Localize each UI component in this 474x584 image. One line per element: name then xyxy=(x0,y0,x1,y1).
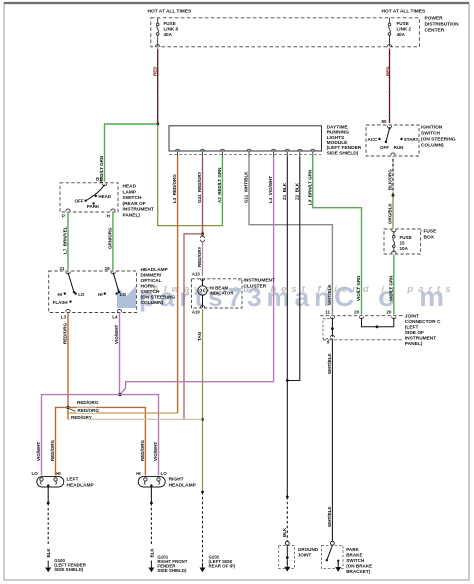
svg-text:TAN: TAN xyxy=(197,332,202,341)
svg-text:(REAR OF: (REAR OF xyxy=(123,201,146,207)
svg-text:A3 RED/LT GRN: A3 RED/LT GRN xyxy=(217,168,222,203)
module pin 3 xyxy=(220,149,224,157)
module pin 2 xyxy=(200,149,204,157)
svg-text:10A: 10A xyxy=(400,246,409,251)
watermark site name xyxy=(139,281,446,312)
wire RED/ORG dimmer L3 down xyxy=(63,313,68,419)
hi-beam indicator label xyxy=(210,285,235,295)
park brake switch label xyxy=(346,547,372,574)
wire BLK/ORG ignition to splice xyxy=(388,157,393,196)
wire WHT/BLK joint connector pin 9 to park brake switch xyxy=(327,339,332,541)
svg-text:BRAKE: BRAKE xyxy=(346,553,362,558)
svg-text:L9 BRN/LT GRN: L9 BRN/LT GRN xyxy=(307,170,312,205)
wire Z1 BLK module to ground joint xyxy=(282,157,287,497)
cluster pin A13 xyxy=(192,272,205,281)
module pin 5 xyxy=(271,149,275,157)
svg-text:COLUMN): COLUMN) xyxy=(421,143,444,149)
splice node on RED feed xyxy=(156,123,159,126)
wire L9 BRN/LT GRN module to joint connector xyxy=(307,157,361,315)
svg-text:15: 15 xyxy=(400,241,406,246)
dimmer switch label xyxy=(141,267,176,306)
fuse link 8 value label xyxy=(164,21,179,37)
ignition switch label xyxy=(421,125,456,149)
node HOT AT ALL TIMES left xyxy=(148,9,193,15)
svg-text:H: H xyxy=(107,213,110,218)
svg-text:HEAD: HEAD xyxy=(98,194,112,199)
fuse link 2 xyxy=(387,18,391,47)
headlamp switch pin P xyxy=(62,209,70,218)
svg-text:ACC: ACC xyxy=(368,137,378,142)
module pin 4 xyxy=(247,149,251,157)
wire VIO/LT GRN fuse 15 to joint connector xyxy=(388,255,393,315)
svg-text:HORN: HORN xyxy=(141,284,156,290)
ground joint internals xyxy=(284,545,290,571)
svg-text:WHT/BLK: WHT/BLK xyxy=(327,353,332,374)
svg-text:POWER: POWER xyxy=(425,16,444,22)
svg-text:LO: LO xyxy=(32,471,39,476)
junction RED/ORG at dimmer L3 xyxy=(66,406,69,409)
svg-text:BRACKET): BRACKET) xyxy=(346,569,370,574)
svg-text:LAMP: LAMP xyxy=(123,189,137,195)
svg-text:JOINT: JOINT xyxy=(298,553,312,558)
svg-text:L4: L4 xyxy=(112,315,118,320)
svg-text:L3 RED/ORG: L3 RED/ORG xyxy=(172,174,177,203)
svg-text:(LEFT: (LEFT xyxy=(405,325,419,331)
svg-text:80: 80 xyxy=(381,119,387,124)
svg-text:SWITCH: SWITCH xyxy=(421,131,440,137)
ground joint box xyxy=(279,545,295,568)
joint connector pin 20 right xyxy=(386,310,396,319)
instrument cluster label xyxy=(238,278,275,290)
svg-text:VIO/WHT: VIO/WHT xyxy=(153,442,158,461)
wire RED/GRY branch to lower run xyxy=(184,234,203,420)
svg-text:CONNECTOR C: CONNECTOR C xyxy=(405,319,441,325)
svg-text:40A: 40A xyxy=(164,32,173,37)
svg-text:HEADLAMP: HEADLAMP xyxy=(141,267,169,273)
svg-text:HEADLAMP: HEADLAMP xyxy=(67,482,95,488)
svg-text:GRN/ORG: GRN/ORG xyxy=(108,227,113,249)
svg-text:RUN: RUN xyxy=(394,145,404,150)
svg-text:OFF: OFF xyxy=(380,145,389,150)
svg-text:LO: LO xyxy=(78,292,85,297)
wire RED/ORG run O2 module L3 link xyxy=(68,412,178,414)
wire RED/LT GRN splice down to module pin A3 xyxy=(158,125,222,226)
dimmer right pole lever and contacts xyxy=(98,273,126,297)
svg-text:SWITCH: SWITCH xyxy=(346,558,365,563)
svg-text:BLK/ORG: BLK/ORG xyxy=(388,169,393,190)
wire Z2 BLK module joining Z1 xyxy=(287,157,300,381)
svg-text:INSTRUMENT: INSTRUMENT xyxy=(244,278,276,284)
svg-text:SWITCH: SWITCH xyxy=(141,289,160,295)
junction Z1-Z2 xyxy=(286,379,289,382)
ignition switch contacts and lever xyxy=(368,127,419,150)
dimmer pin L3 xyxy=(61,310,70,320)
wire VIO/WHT run V1 module L4 to dimmer leg xyxy=(120,382,274,395)
svg-text:HI: HI xyxy=(98,292,103,297)
headlamp dimmer switch box xyxy=(49,271,137,313)
svg-text:LO: LO xyxy=(120,292,127,297)
ground G101 label xyxy=(157,555,187,574)
svg-text:LEFT: LEFT xyxy=(67,476,79,482)
run labels RED/ORG RED/ORG RED/GRY xyxy=(70,399,100,420)
DRL module label xyxy=(327,124,362,156)
power distribution center label xyxy=(425,16,460,34)
svg-text:20: 20 xyxy=(386,310,392,315)
svg-text:BLK: BLK xyxy=(46,548,51,558)
left headlamp lamp body xyxy=(37,477,64,487)
svg-text:LINK 2: LINK 2 xyxy=(397,27,412,32)
wire TAN cluster A10 down to ground xyxy=(197,309,205,572)
wire RED/GRY run C xyxy=(68,418,203,420)
svg-text:L7 BRN/YEL: L7 BRN/YEL xyxy=(63,226,68,254)
svg-text:LIGHTS: LIGHTS xyxy=(327,135,345,141)
joint connector pin 20 left xyxy=(354,310,364,319)
svg-text:RED/ORG: RED/ORG xyxy=(77,400,99,405)
svg-text:FUSE: FUSE xyxy=(400,235,412,240)
watermark logo mark xyxy=(117,286,136,308)
svg-text:JOINT: JOINT xyxy=(405,314,419,320)
left headlamp label xyxy=(67,476,95,488)
hi-beam indicator lamp xyxy=(198,279,207,308)
svg-text:HOT AT ALL TIMES: HOT AT ALL TIMES xyxy=(382,9,427,15)
park brake switch box xyxy=(322,545,344,568)
wire ORG/BLK splice to fuse 15 xyxy=(388,196,393,229)
right headlamp label xyxy=(169,476,197,488)
svg-text:A10: A10 xyxy=(192,309,200,314)
svg-text:IGNITION: IGNITION xyxy=(421,125,443,131)
headlamp switch pin B1 xyxy=(96,177,107,186)
node HOT AT ALL TIMES right xyxy=(382,9,427,15)
svg-text:FUSE: FUSE xyxy=(397,21,409,26)
svg-text:ORG/BLK: ORG/BLK xyxy=(388,203,393,224)
joint connector internal bus xyxy=(362,318,394,328)
dimmer left pole lever and contacts xyxy=(53,273,85,305)
svg-text:RED/ORG: RED/ORG xyxy=(50,439,55,461)
svg-text:Z1 BLK: Z1 BLK xyxy=(282,182,287,200)
svg-text:L3: L3 xyxy=(61,315,67,320)
svg-text:RED: RED xyxy=(385,66,390,76)
right headlamp pin labels xyxy=(136,471,167,476)
svg-text:RED/GRY: RED/GRY xyxy=(197,247,202,267)
right headlamp lamp body xyxy=(138,477,165,487)
svg-text:DIMMER/: DIMMER/ xyxy=(141,273,162,279)
wire RED/LT GRN splice to headlamp switch B1 xyxy=(99,124,158,183)
svg-text:INDICATOR: INDICATOR xyxy=(210,291,235,296)
power distribution center box xyxy=(151,18,420,47)
svg-text:BLK: BLK xyxy=(282,527,287,537)
svg-text:WHT/BLK: WHT/BLK xyxy=(327,506,332,527)
joint connector pin 9 row dashed line xyxy=(323,339,403,341)
fuse link 2 value label xyxy=(397,21,412,37)
ignition switch output pin xyxy=(391,153,395,155)
instrument cluster box xyxy=(192,279,243,308)
svg-text:SIDE OF: SIDE OF xyxy=(405,330,424,336)
dimmer pin L4 xyxy=(112,310,121,320)
wire RED from fuse link 2 to ignition switch pin 80 xyxy=(385,49,390,123)
svg-text:SIDE SHIELD): SIDE SHIELD) xyxy=(54,567,84,572)
fuse 15 value label xyxy=(400,235,412,251)
svg-text:40A: 40A xyxy=(397,32,406,37)
ground joint pin xyxy=(285,541,289,545)
svg-text:G11 WHT/BLK: G11 WHT/BLK xyxy=(244,171,249,203)
svg-text:PARK: PARK xyxy=(87,204,100,209)
wire L3 RED/ORG module to lower run xyxy=(172,157,177,413)
svg-text:RED/ORG: RED/ORG xyxy=(63,322,68,344)
dimmer pin 19 xyxy=(105,266,116,274)
svg-text:SWITCH: SWITCH xyxy=(123,195,142,201)
svg-text:G24 RED/GRY: G24 RED/GRY xyxy=(197,172,202,203)
fuse box label xyxy=(421,229,437,241)
svg-text:(LEFT FENDER: (LEFT FENDER xyxy=(327,145,362,151)
svg-text:PANEL): PANEL) xyxy=(123,213,141,219)
svg-text:PANEL): PANEL) xyxy=(405,341,423,347)
svg-text:HI: HI xyxy=(136,471,141,476)
svg-text:HEAD: HEAD xyxy=(123,184,137,190)
svg-text:P: P xyxy=(62,213,65,218)
left headlamp ground wire BLK xyxy=(45,486,51,572)
inline connector on indicator feed xyxy=(201,234,205,242)
joint connector C label xyxy=(405,314,441,348)
watermark script slogan xyxy=(151,284,452,295)
svg-text:VIO/LT GRN: VIO/LT GRN xyxy=(356,276,361,301)
svg-text:REAR OF IP): REAR OF IP) xyxy=(209,564,236,569)
svg-text:INSTRUMENT: INSTRUMENT xyxy=(123,207,155,213)
joint connector pin 11 to pin 9 segment xyxy=(323,318,335,345)
svg-text:B1: B1 xyxy=(96,177,102,182)
wire VIO/WHT run V2 to headlamps xyxy=(36,395,158,476)
svg-text:21: 21 xyxy=(59,266,65,271)
svg-text:BOX: BOX xyxy=(424,235,435,241)
joint connector pin 11 xyxy=(325,310,334,319)
ground joint label xyxy=(298,547,319,558)
wire Z1 BLK dashed segment to ground joint xyxy=(282,496,289,542)
svg-text:OPTICAL: OPTICAL xyxy=(141,278,162,284)
svg-text:RED/ORG: RED/ORG xyxy=(140,439,145,461)
fuse 15 xyxy=(392,230,396,253)
wire BRN/YEL headlamp switch P to dimmer pin 21 xyxy=(63,213,68,270)
park brake switch pin xyxy=(331,541,335,545)
svg-text:Z2 BLK: Z2 BLK xyxy=(294,182,299,200)
svg-text:FUSE: FUSE xyxy=(164,21,176,26)
left headlamp pin labels xyxy=(32,471,61,476)
svg-text:RUNNING: RUNNING xyxy=(327,130,350,136)
fuse box (dashed) xyxy=(384,229,421,254)
fuse link 8 xyxy=(156,18,160,47)
junction VIO/WHT at dimmer leg xyxy=(118,393,121,396)
svg-text:FUSE: FUSE xyxy=(424,229,438,235)
joint connector C dashed line xyxy=(320,315,404,317)
splice on ignition feed xyxy=(392,194,395,197)
svg-text:(ON STEERING: (ON STEERING xyxy=(421,137,456,143)
svg-text:START: START xyxy=(404,137,419,142)
wire GRN/ORG headlamp switch H to dimmer pin 19 xyxy=(108,213,113,270)
cluster pin A10 xyxy=(192,306,205,315)
svg-text:HI: HI xyxy=(56,471,61,476)
ignition switch pin 80 xyxy=(381,119,391,128)
svg-text:HOT AT ALL TIMES: HOT AT ALL TIMES xyxy=(148,9,193,15)
svg-text:(ON STEERING: (ON STEERING xyxy=(141,295,176,301)
svg-text:RED: RED xyxy=(152,66,157,76)
module pin 8 xyxy=(311,149,315,157)
svg-text:SIDE SHIELD): SIDE SHIELD) xyxy=(157,568,187,573)
svg-text:19: 19 xyxy=(105,266,111,271)
splice on hi-beam indicator feed xyxy=(201,232,204,235)
svg-text:COLUMN): COLUMN) xyxy=(141,300,164,306)
module pin 7 xyxy=(298,149,302,157)
svg-text:MODULE: MODULE xyxy=(327,140,349,146)
svg-text:BLK: BLK xyxy=(149,548,154,558)
svg-text:VIO/WHT: VIO/WHT xyxy=(114,325,119,344)
svg-text:20: 20 xyxy=(354,310,360,315)
headlamp switch contacts and lever xyxy=(75,185,112,210)
wire RED/GRY connector to cluster pin A13 xyxy=(197,241,202,277)
svg-text:OFF: OFF xyxy=(75,198,84,203)
svg-text:LINK 8: LINK 8 xyxy=(164,27,179,32)
wire L4 VIO/WHT module down xyxy=(268,157,273,382)
wire A3 RED/LT GRN module pin 3 xyxy=(217,157,222,226)
svg-text:RED/ORG: RED/ORG xyxy=(78,408,100,413)
ignition switch box xyxy=(366,125,419,156)
svg-text:HI: HI xyxy=(58,292,63,297)
ground G100 label xyxy=(54,558,87,572)
module pin 1 xyxy=(175,149,179,157)
svg-text:RIGHT: RIGHT xyxy=(169,476,184,482)
headlamp switch pin H xyxy=(107,209,115,218)
svg-text:VIO/WHT: VIO/WHT xyxy=(36,442,41,461)
svg-text:SIDE SHIELD): SIDE SHIELD) xyxy=(327,150,359,156)
svg-text:DAYTIME: DAYTIME xyxy=(327,124,349,130)
svg-text:HEADLAMP: HEADLAMP xyxy=(169,482,197,488)
svg-text:L4 VIO/WHT: L4 VIO/WHT xyxy=(268,176,273,203)
svg-text:A13: A13 xyxy=(192,272,200,277)
svg-text:FLASH: FLASH xyxy=(53,300,68,305)
svg-text:PARK: PARK xyxy=(346,547,359,552)
svg-text:VIO/LT GRN: VIO/LT GRN xyxy=(388,276,393,301)
svg-text:HI BEAM: HI BEAM xyxy=(210,285,229,290)
wire G11 WHT/BLK module to joint connector pin 11 xyxy=(244,157,333,315)
headlamp switch box xyxy=(60,183,118,212)
module pin 6 xyxy=(285,149,289,157)
svg-text:CENTER: CENTER xyxy=(425,28,445,34)
svg-text:LO: LO xyxy=(161,471,168,476)
svg-text:DISTRIBUTION: DISTRIBUTION xyxy=(425,22,460,28)
DRL module U1 box xyxy=(169,126,322,151)
right headlamp ground wire BLK xyxy=(148,486,154,572)
wire RED/ORG run O1 to headlamps xyxy=(50,407,145,475)
wire RED from fuse link 8 to splice xyxy=(152,49,157,124)
svg-text:GROUND: GROUND xyxy=(298,547,319,552)
dimmer pin 21 xyxy=(59,266,70,274)
ground G202 label xyxy=(209,555,236,569)
svg-text:CLUSTER: CLUSTER xyxy=(244,283,267,289)
svg-text:INSTRUMENT: INSTRUMENT xyxy=(405,336,437,342)
park brake switch S1 internals xyxy=(326,545,342,572)
DRL module connector dashed line xyxy=(169,154,322,156)
wire VIO/WHT dimmer L4 down xyxy=(114,313,119,394)
headlamp switch label xyxy=(123,184,155,219)
svg-text:11: 11 xyxy=(325,310,330,315)
svg-text:(ON BRAKE: (ON BRAKE xyxy=(346,564,372,569)
wire G24 RED/GRY module to splice xyxy=(197,157,202,236)
svg-text:RED/GRY: RED/GRY xyxy=(71,415,92,420)
svg-text:WHT/BLK: WHT/BLK xyxy=(327,284,332,305)
